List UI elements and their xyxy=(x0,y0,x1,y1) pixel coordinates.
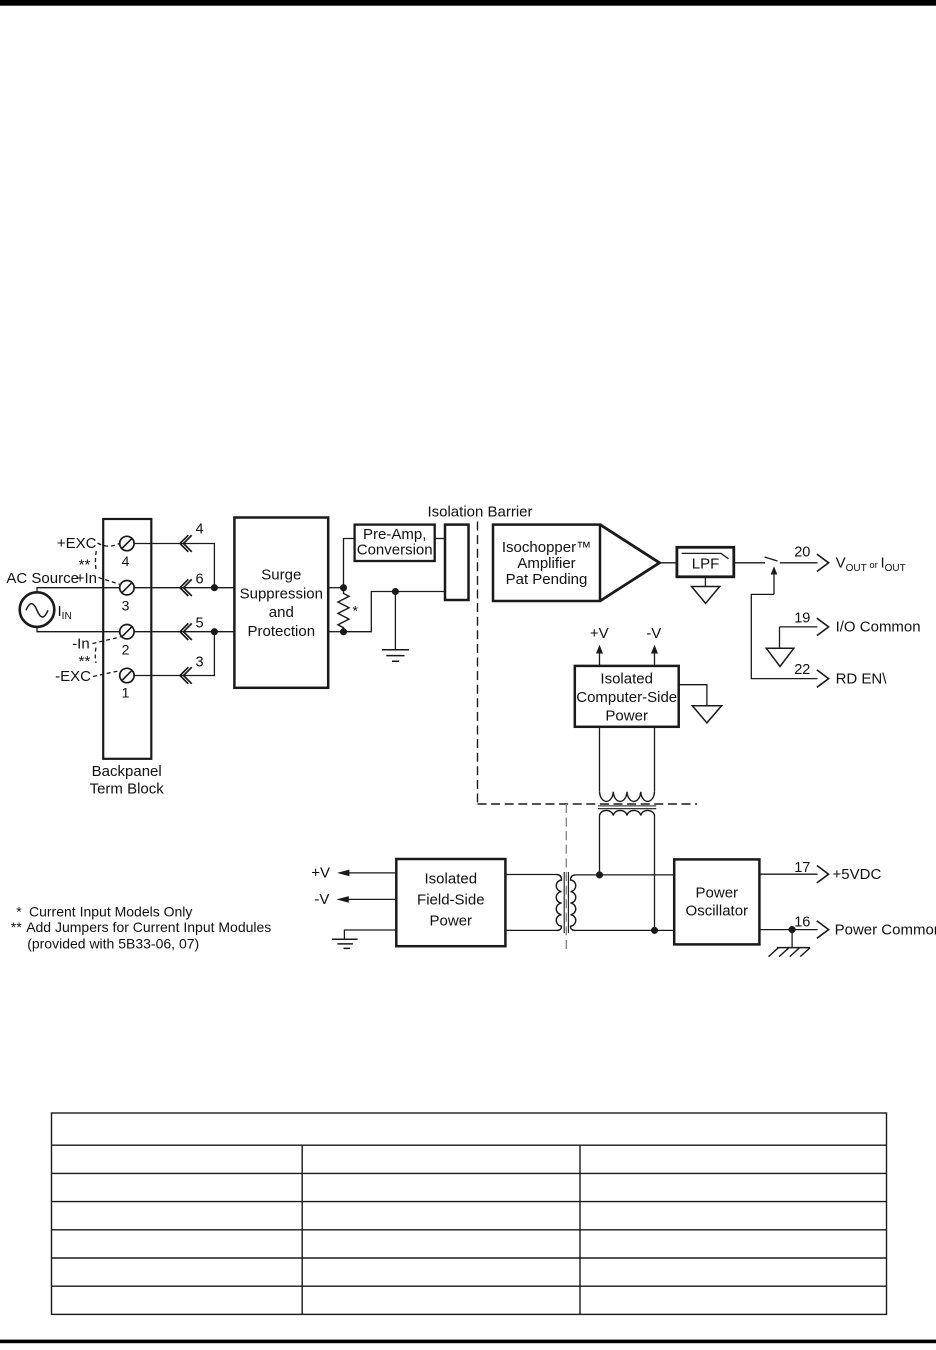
node T1 left to top rail xyxy=(597,872,603,878)
pin 22 arrow xyxy=(817,670,829,687)
svg-text:3: 3 xyxy=(195,655,203,671)
svg-text:+In: +In xyxy=(76,570,97,587)
dashed jumper +In to terminal 3 xyxy=(99,578,120,585)
svg-text:-EXC: -EXC xyxy=(55,668,91,685)
node T1 right to bottom rail xyxy=(652,928,658,934)
svg-text:Computer-Side: Computer-Side xyxy=(576,689,677,706)
dashed isolation barrier vertical upper xyxy=(477,522,479,805)
switch actuator arrow xyxy=(771,566,778,594)
svg-text:5: 5 xyxy=(195,616,203,632)
wire terminal 3 to surge block (wire 6) xyxy=(134,587,234,589)
chevron arrows wire 5 xyxy=(180,623,192,640)
dashed jumper bracket upper xyxy=(94,551,97,572)
wire LPF to switch xyxy=(734,562,765,564)
dashed isolation barrier horizontal xyxy=(478,803,698,805)
chevron arrows wire 6 xyxy=(180,579,192,596)
svg-text:22: 22 xyxy=(794,662,810,678)
wire terminal 4 to node on wire 6 xyxy=(134,544,214,588)
dashed jumper bracket lower xyxy=(94,648,97,664)
svg-text:and: and xyxy=(269,604,294,621)
table xyxy=(52,1113,887,1314)
ground LPF triangle xyxy=(692,577,720,604)
svg-text:Conversion: Conversion xyxy=(357,542,433,559)
transformer T2 right winding xyxy=(571,875,576,931)
svg-text:Power: Power xyxy=(696,885,739,902)
transformer T1 core xyxy=(598,806,656,809)
node resistor bottom xyxy=(341,629,347,635)
wire surge to resistor bottom node xyxy=(328,631,343,633)
wire amp to LPF xyxy=(660,562,677,564)
wire terminal 1 to node on wire 5 xyxy=(134,632,214,676)
wire field box to T2 bottom xyxy=(505,929,556,931)
chassis ground power common xyxy=(769,930,811,957)
svg-text:+V: +V xyxy=(311,865,330,882)
svg-text:I/O Common: I/O Common xyxy=(836,619,921,636)
isolated field-side power block xyxy=(396,859,505,946)
pin 17 arrow xyxy=(817,866,829,883)
svg-text:+5VDC: +5VDC xyxy=(833,866,882,883)
LPF block xyxy=(677,547,734,577)
terminal 2 xyxy=(120,625,134,639)
svg-text:Amplifier: Amplifier xyxy=(517,555,575,572)
svg-text:RD EN\: RD EN\ xyxy=(836,670,888,687)
terminal 4 xyxy=(120,536,134,550)
svg-text:Isolation Barrier: Isolation Barrier xyxy=(427,504,532,521)
wire rd-en from switch arrow to pin 22 xyxy=(751,594,817,678)
wire resistor top node up to pre-amp xyxy=(344,539,355,588)
svg-text:3: 3 xyxy=(122,598,130,614)
svg-text:2: 2 xyxy=(122,641,130,657)
node resistor top xyxy=(341,585,347,591)
svg-text:Isolated: Isolated xyxy=(600,671,653,688)
dashed jumper -EXC to terminal 1 xyxy=(93,671,120,677)
svg-text:4: 4 xyxy=(122,553,130,569)
svg-text:16: 16 xyxy=(794,914,810,930)
wire AC source bottom to terminal 2 xyxy=(37,627,120,632)
wire switch to pin 20 xyxy=(780,562,818,564)
wire T2 to oscillator top rail xyxy=(576,874,675,876)
svg-text:1: 1 xyxy=(122,685,130,701)
svg-text:Power Common: Power Common xyxy=(835,921,936,938)
+V arrow field side xyxy=(337,870,396,877)
svg-text:Field-Side: Field-Side xyxy=(417,891,485,908)
svg-text:19: 19 xyxy=(794,610,810,626)
isochopper amplifier U2 xyxy=(493,525,660,601)
svg-text:Oscillator: Oscillator xyxy=(686,902,749,919)
wire bottom node to mid node xyxy=(344,592,396,632)
node pin 16 ground xyxy=(789,927,795,933)
svg-text:Protection: Protection xyxy=(248,623,316,640)
svg-text:Isochopper™: Isochopper™ xyxy=(502,539,591,556)
transformer T1 top winding xyxy=(600,792,655,802)
terminal 3 xyxy=(120,581,134,595)
svg-text:Backpanel: Backpanel xyxy=(92,763,162,780)
svg-text:*: * xyxy=(353,603,359,619)
svg-text:Add Jumpers for Current Input: Add Jumpers for Current Input Modules xyxy=(26,919,271,935)
isolation barrier block xyxy=(445,525,469,600)
wire terminal 2 to surge block (wire 5) xyxy=(134,631,234,633)
switch lever xyxy=(765,557,778,561)
pin 16 wire xyxy=(759,929,817,931)
-V arrow field side xyxy=(336,896,396,903)
surge suppression block xyxy=(234,518,328,688)
svg-text:6: 6 xyxy=(195,572,203,588)
dashed jumper -In to terminal 2 xyxy=(93,637,121,644)
wire T2 to oscillator bottom rail xyxy=(576,929,675,931)
io common triangle xyxy=(766,648,794,666)
terminal 1 xyxy=(120,668,134,682)
svg-text:20: 20 xyxy=(794,545,810,561)
pin 20 arrow xyxy=(817,554,829,571)
node mid xyxy=(393,589,399,595)
svg-text:LPF: LPF xyxy=(692,556,720,573)
wire AC source top to terminal 3 xyxy=(37,588,120,593)
transformer T1 secondary leads xyxy=(600,816,655,931)
svg-text:-V: -V xyxy=(646,625,661,642)
backpanel term block xyxy=(103,519,151,759)
ground field side xyxy=(332,939,358,948)
ground field signal xyxy=(382,650,409,661)
resistor R* (current input models) xyxy=(338,588,349,632)
junction node wire 5 xyxy=(212,629,218,635)
pre-amp block U1 xyxy=(355,525,435,561)
wire pre-amp to isolation block xyxy=(435,538,445,540)
pin 19 arrow xyxy=(817,618,829,635)
chevron arrows wire 4 xyxy=(180,535,192,552)
svg-text:**: ** xyxy=(11,919,22,935)
svg-text:Pat Pending: Pat Pending xyxy=(506,571,588,588)
transformer T1 bottom winding xyxy=(600,810,655,815)
wire surge to resistor top node xyxy=(328,587,343,589)
svg-text:Pre-Amp,: Pre-Amp, xyxy=(363,526,426,543)
svg-text:-In: -In xyxy=(72,636,90,653)
isolated computer-side power block xyxy=(575,666,679,727)
transformer T2 core xyxy=(564,872,568,933)
svg-text:17: 17 xyxy=(794,860,810,876)
dashed jumper +EXC to terminal 4 xyxy=(98,543,120,546)
AC source V1 xyxy=(20,592,55,627)
svg-text:+EXC: +EXC xyxy=(57,535,97,552)
computer side common wire xyxy=(679,685,707,706)
svg-text:Suppression: Suppression xyxy=(240,586,323,603)
pin 19 wire xyxy=(780,627,818,648)
svg-text:Surge: Surge xyxy=(261,567,301,584)
computer side common triangle xyxy=(692,706,721,723)
svg-text:*: * xyxy=(16,904,22,920)
junction node wire 6 xyxy=(212,585,218,591)
pin 16 arrow xyxy=(817,921,829,938)
chevron arrows wire 3 xyxy=(180,667,192,684)
wire field box to T2 top xyxy=(505,874,556,876)
svg-text:-V: -V xyxy=(314,891,329,908)
+V arrow computer side xyxy=(596,645,603,666)
wire mid node to isolation block xyxy=(395,591,445,593)
dashed isolation barrier vertical lower xyxy=(565,804,567,950)
svg-text:+V: +V xyxy=(590,625,609,642)
pin 17 wire xyxy=(759,873,817,875)
svg-text:Term Block: Term Block xyxy=(90,781,165,798)
svg-text:Power: Power xyxy=(430,912,473,929)
svg-text:Current Input Models Only: Current Input Models Only xyxy=(29,904,192,920)
svg-text:Isolated: Isolated xyxy=(425,870,478,887)
svg-text:(provided with 5B33-06, 07): (provided with 5B33-06, 07) xyxy=(27,935,199,951)
svg-text:4: 4 xyxy=(195,522,203,538)
field side ground wire xyxy=(344,930,396,939)
svg-text:Power: Power xyxy=(605,708,648,725)
power oscillator block xyxy=(674,859,759,944)
transformer T1 primary leads xyxy=(600,727,655,792)
wire mid node down to ground xyxy=(394,592,396,650)
svg-text:AC Source: AC Source xyxy=(6,570,79,587)
-V arrow computer side xyxy=(651,645,658,666)
transformer T2 left winding xyxy=(556,875,561,931)
